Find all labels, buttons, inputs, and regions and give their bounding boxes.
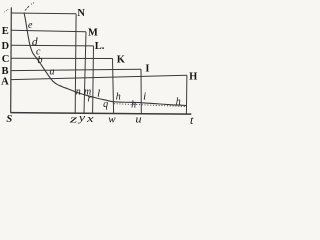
- svg-text:r: r: [88, 93, 92, 104]
- svg-text:x: x: [86, 113, 94, 125]
- E horizontal line to M: [11, 30, 86, 31]
- svg-text:L.: L.: [95, 41, 105, 52]
- left axis ES: [10, 7, 13, 112]
- svg-text:K: K: [117, 55, 126, 66]
- svg-text:M: M: [88, 27, 98, 38]
- dots of curve continuation at top: [31, 4, 32, 5]
- tiny dots left of axis top: [3, 10, 6, 13]
- svg-text:l: l: [97, 87, 100, 99]
- C horizontal line to K: [11, 57, 113, 59]
- L vertical (over x): [92, 46, 95, 113]
- bottom axis St: [10, 113, 191, 115]
- svg-text:N: N: [77, 8, 85, 19]
- H vertical (over t): [185, 75, 188, 114]
- D horizontal line to L: [11, 44, 94, 47]
- B horizontal line to I: [11, 69, 141, 70]
- svg-text:e: e: [28, 20, 33, 31]
- top horizontal line to N: [11, 12, 76, 15]
- svg-text:A: A: [1, 77, 9, 88]
- svg-text:n: n: [76, 86, 81, 97]
- svg-text:a: a: [50, 66, 55, 77]
- M vertical (over y): [84, 32, 86, 113]
- dotted line below curve to foot of H: [114, 104, 186, 107]
- svg-text:i: i: [143, 90, 146, 102]
- N vertical (over z): [74, 14, 77, 113]
- svg-text:S: S: [6, 114, 12, 125]
- svg-text:y: y: [78, 112, 86, 124]
- svg-text:z: z: [68, 113, 78, 125]
- svg-text:H: H: [189, 72, 197, 83]
- svg-text:h: h: [116, 92, 121, 103]
- svg-text:h: h: [176, 96, 181, 107]
- dashed curve continuation above top line: [25, 9, 27, 11]
- svg-text:E: E: [2, 26, 9, 37]
- svg-text:b: b: [38, 55, 43, 66]
- svg-text:B: B: [1, 66, 8, 77]
- svg-text:w: w: [108, 113, 116, 125]
- svg-text:D: D: [2, 41, 10, 52]
- svg-text:I: I: [145, 63, 149, 74]
- hyperbola curve: [24, 13, 187, 106]
- svg-text:u: u: [135, 113, 142, 125]
- I vertical (over u): [140, 69, 142, 114]
- svg-text:C: C: [2, 54, 10, 65]
- svg-text:q: q: [103, 99, 108, 110]
- A horizontal line to H: [11, 75, 187, 79]
- K vertical (over w): [113, 59, 114, 114]
- svg-text:h: h: [131, 99, 136, 110]
